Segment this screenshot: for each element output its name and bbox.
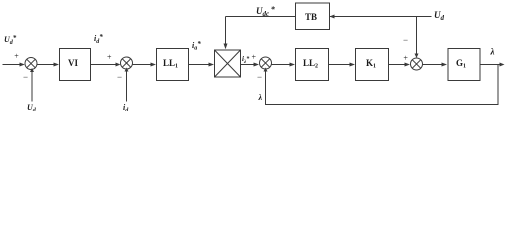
svg-text:−: − xyxy=(23,72,28,82)
wire K1 to S4 xyxy=(389,64,407,66)
block TB xyxy=(296,3,330,30)
summing junction S2 xyxy=(121,57,133,69)
arrow into S3 left xyxy=(254,63,260,67)
wire input Udc* xyxy=(3,64,21,66)
wire LL2 to K1 xyxy=(329,64,351,66)
wire lambda feedback xyxy=(266,65,499,105)
summing junction S3 xyxy=(260,57,272,69)
arrow into S2 left xyxy=(116,63,121,67)
wire multiplier top input xyxy=(225,17,227,45)
svg-text:+: + xyxy=(252,53,257,62)
wire S3 to LL2 xyxy=(272,64,291,66)
block G1 xyxy=(448,49,480,81)
arrow into S2 bottom xyxy=(125,68,129,72)
arrow into multiplier top xyxy=(224,44,228,50)
arrow into LL1 xyxy=(151,63,157,67)
summing junction S4 xyxy=(411,58,423,70)
svg-text:+: + xyxy=(403,54,408,63)
block LL2 xyxy=(296,49,329,81)
arrow into multiplier left xyxy=(209,63,215,67)
arrow into K1 xyxy=(350,63,356,67)
wire S4 top input from Ud line xyxy=(416,17,418,55)
svg-text:+: + xyxy=(107,53,112,62)
arrow into S1 left xyxy=(20,63,25,67)
wire S1 to VI xyxy=(37,64,55,66)
wire top line TB output to multiplier xyxy=(226,16,296,18)
svg-text:VI: VI xyxy=(68,58,78,68)
arrow into S4 top xyxy=(415,54,419,59)
wire S2 to LL1 xyxy=(133,64,152,66)
arrow into S1 bottom xyxy=(30,68,34,72)
arrow into G1 xyxy=(442,63,448,67)
arrow into TB right side xyxy=(330,15,335,19)
wire Vdc feedback into S1 xyxy=(31,72,33,102)
block VI xyxy=(60,49,91,81)
arrow into LL2 xyxy=(290,63,296,67)
block K1 xyxy=(356,49,389,81)
wire VI to S2 xyxy=(91,64,117,66)
wire S4 to G1 xyxy=(423,64,443,66)
svg-text:λ: λ xyxy=(490,47,495,57)
svg-text:−: − xyxy=(257,72,262,82)
multiplier block xyxy=(215,50,241,77)
svg-text:λ: λ xyxy=(258,93,263,102)
svg-text:−: − xyxy=(117,72,122,82)
arrow into S4 left xyxy=(405,63,411,67)
arrow into VI xyxy=(54,63,60,67)
block LL1 xyxy=(157,49,189,81)
arrow output tip xyxy=(500,63,505,67)
svg-text:TB: TB xyxy=(305,12,317,22)
wire LL1 to multiplier xyxy=(189,64,210,66)
wire Ud input line into TB xyxy=(330,16,432,18)
wire G1 output lambda xyxy=(480,64,502,66)
wire id feedback into S2 xyxy=(126,71,128,102)
arrow into S3 bottom xyxy=(264,68,268,72)
svg-text:−: − xyxy=(403,35,408,45)
wire multiplier to S3 xyxy=(241,64,255,66)
svg-text:+: + xyxy=(14,52,19,61)
summing junction S1 xyxy=(25,58,37,70)
